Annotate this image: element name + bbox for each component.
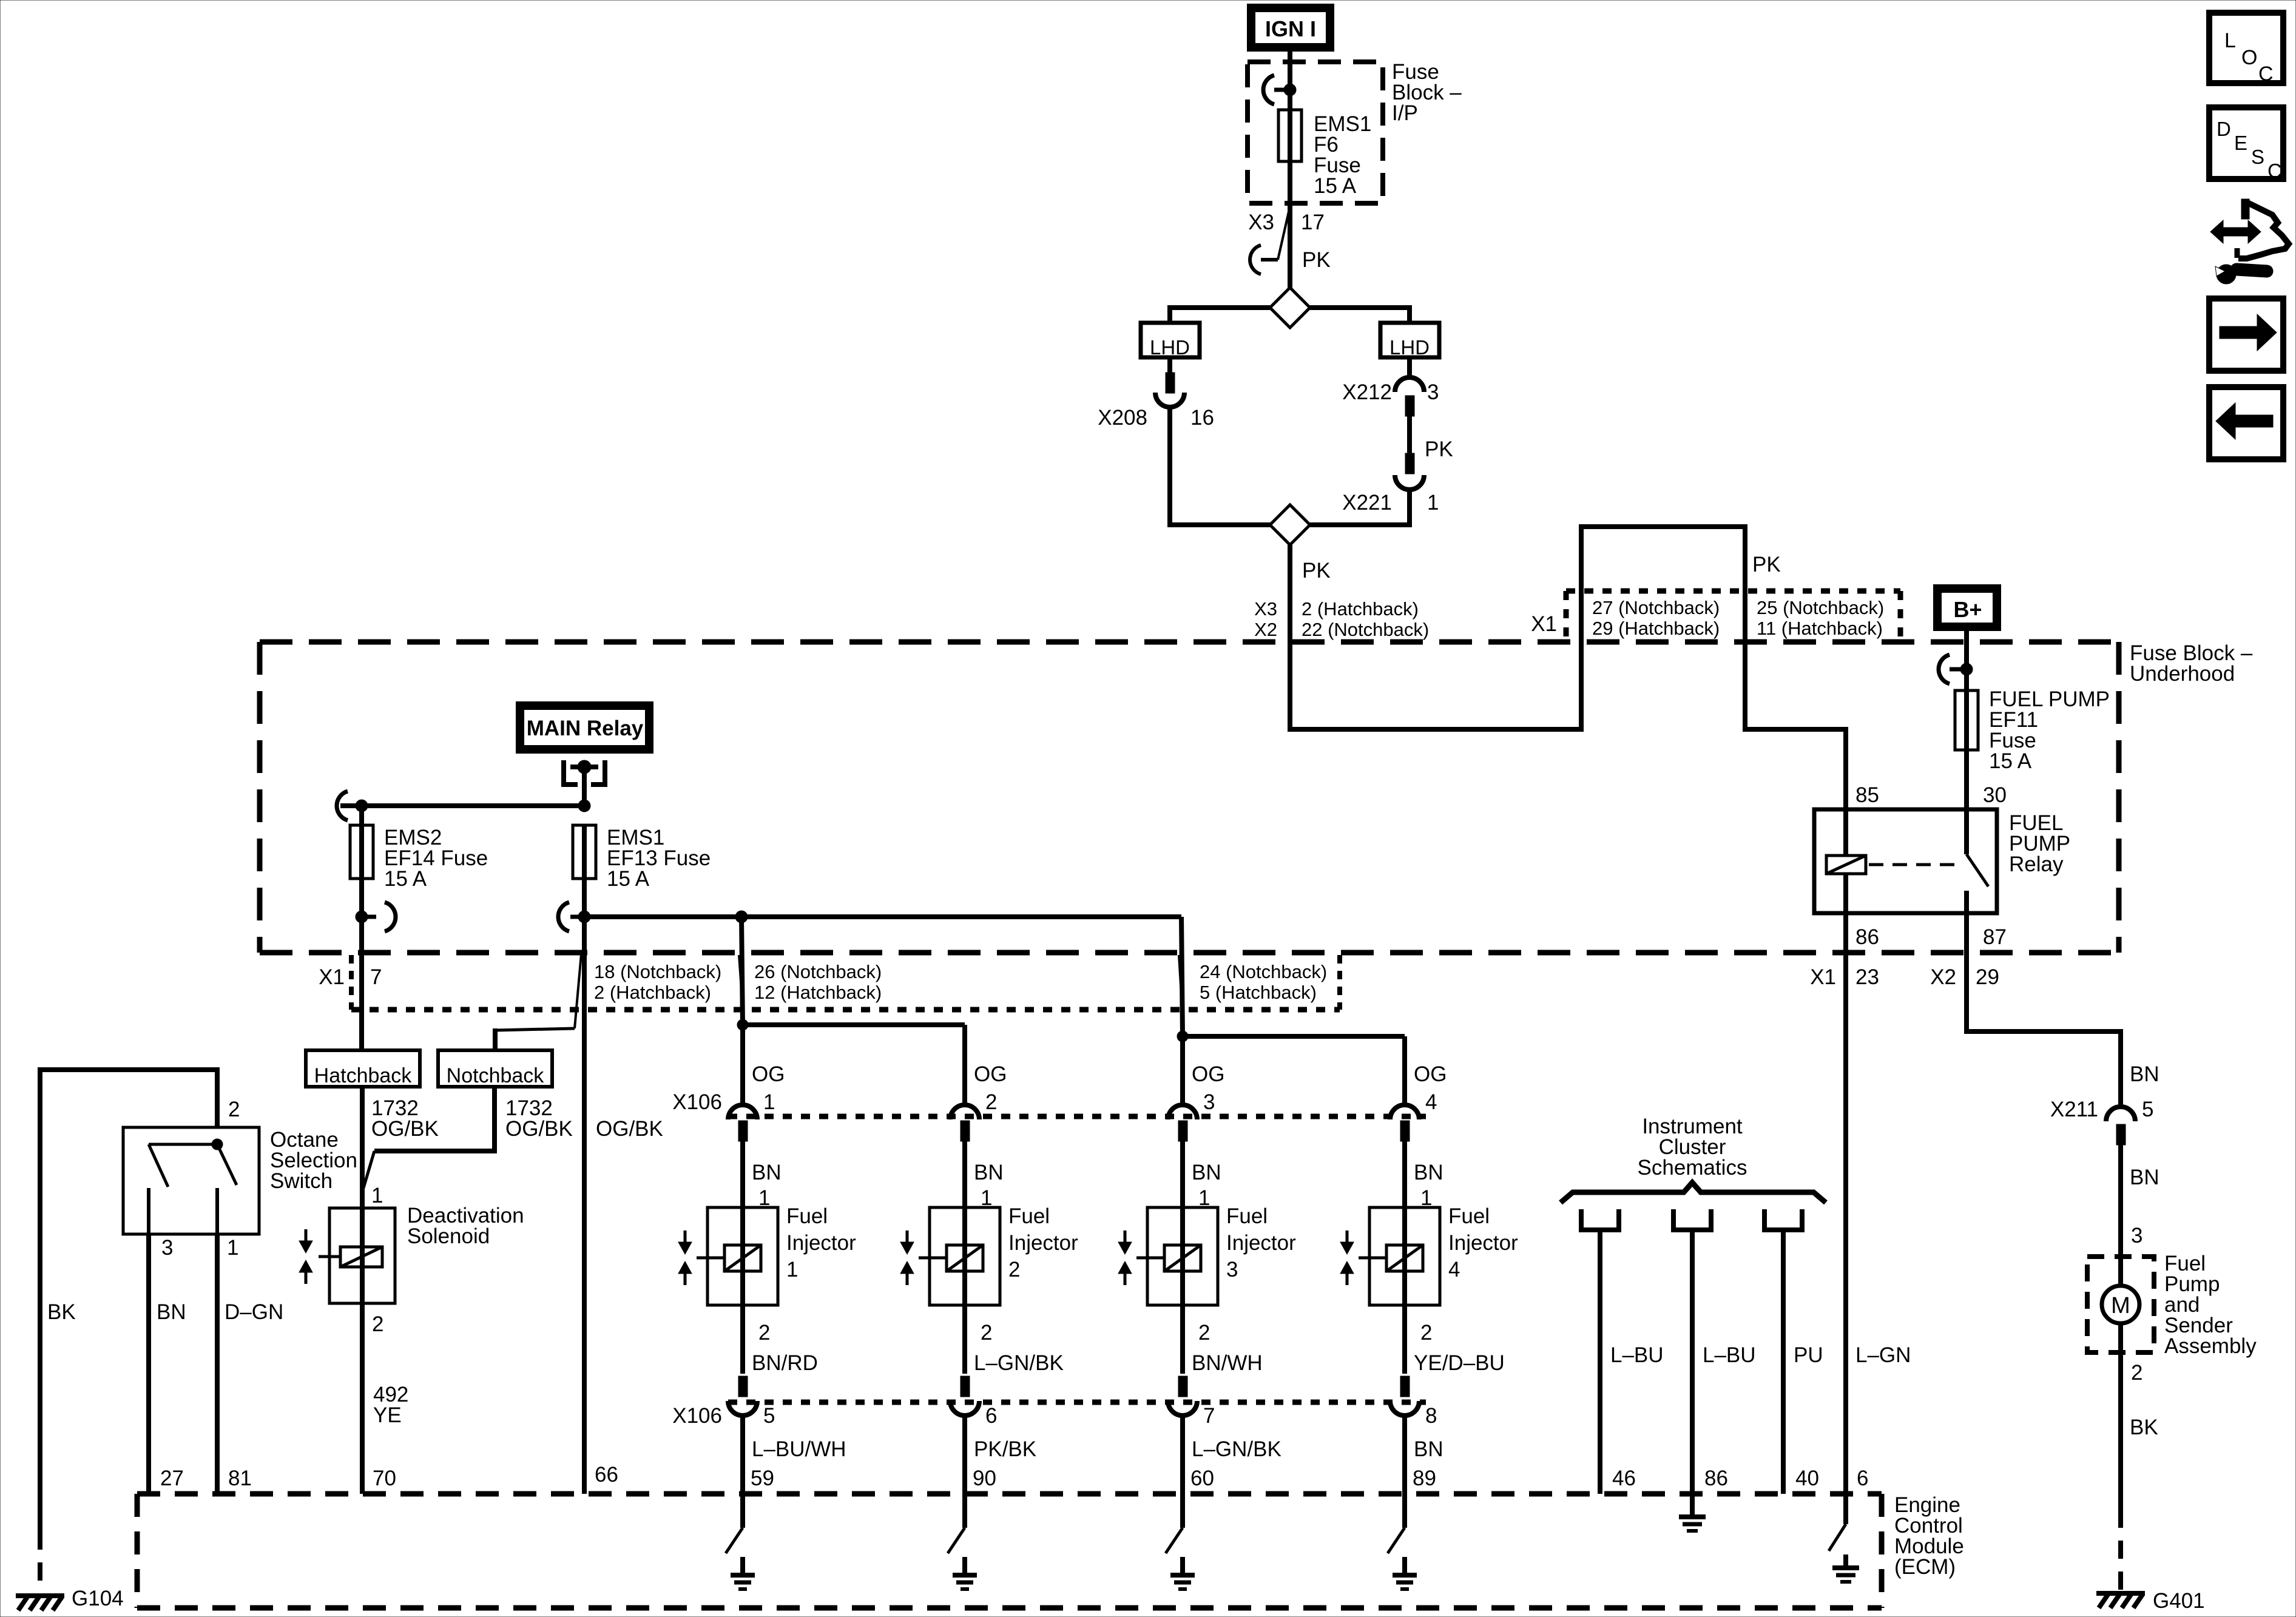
svg-text:86: 86 [1704, 1467, 1728, 1490]
svg-text:Injector: Injector [1008, 1231, 1078, 1255]
svg-text:D–GN: D–GN [225, 1300, 283, 1324]
connector X106 top dotted line [728, 1114, 1426, 1119]
wire fuel pump to G401 BK [2118, 1323, 2123, 1510]
ground wire dashed G401 [2118, 1510, 2123, 1590]
svg-text:87: 87 [1983, 925, 2007, 949]
wire instrument cluster 2 [1690, 1230, 1695, 1494]
wire injector 3 pin2 to X106 [1180, 1305, 1185, 1374]
svg-text:Schematics: Schematics [1638, 1156, 1747, 1180]
wire instrument cluster 3 [1781, 1230, 1786, 1494]
svg-text:PU: PU [1794, 1343, 1823, 1367]
svg-text:2: 2 [758, 1321, 770, 1345]
svg-text:7: 7 [370, 965, 382, 989]
fuel injector 2 valve arrows [906, 1230, 909, 1242]
svg-text:MAIN Relay: MAIN Relay [527, 717, 644, 740]
svg-text:G401: G401 [2153, 1589, 2205, 1613]
svg-text:40: 40 [1795, 1467, 1819, 1490]
fuel injector 4 box [1369, 1207, 1440, 1305]
svg-text:15 A: 15 A [1314, 174, 1357, 198]
connector X208 pin 16 [1167, 357, 1172, 373]
svg-text:18 (Notchback): 18 (Notchback) [594, 961, 721, 982]
svg-text:Injector: Injector [1226, 1231, 1296, 1255]
icon box LOC [2209, 13, 2283, 83]
svg-text:YE: YE [373, 1403, 402, 1427]
svg-text:70: 70 [373, 1467, 396, 1490]
junction clip EF14 [362, 915, 376, 919]
svg-text:OG: OG [1192, 1062, 1224, 1086]
icon box DESC [2209, 107, 2283, 179]
injector feed bus [584, 914, 1181, 919]
svg-text:PK: PK [1752, 553, 1781, 576]
junction clip EF13 [570, 915, 584, 919]
instrument cluster terminal 1 [1581, 1209, 1619, 1230]
svg-text:OG/BK: OG/BK [505, 1117, 573, 1141]
wire X221 to splice S202 [1310, 490, 1410, 525]
fuse block underhood dashed outline [260, 640, 2119, 645]
svg-text:46: 46 [1612, 1467, 1636, 1490]
svg-text:M: M [2111, 1293, 2130, 1318]
svg-text:LHD: LHD [1150, 336, 1190, 359]
svg-text:X3: X3 [1248, 211, 1274, 234]
instrument cluster terminal 2 [1673, 1209, 1711, 1230]
svg-text:X1: X1 [1531, 612, 1557, 636]
deactivation solenoid valve arrows [305, 1229, 308, 1241]
wire fuse F6 to splice S201 [1288, 161, 1292, 288]
svg-text:IGN I: IGN I [1265, 16, 1316, 41]
svg-text:BN/RD: BN/RD [752, 1351, 818, 1375]
deactivation solenoid coil [319, 1255, 342, 1258]
svg-text:X106: X106 [672, 1090, 722, 1114]
svg-text:I/P: I/P [1392, 101, 1418, 125]
svg-text:PK: PK [1302, 248, 1331, 272]
svg-text:5: 5 [763, 1404, 775, 1428]
relay control label box MAIN Relay [516, 701, 653, 754]
svg-text:4: 4 [1425, 1090, 1437, 1114]
wire relay 86 to ECM pin 6 L-GN [1843, 913, 1848, 1494]
bus clip at fuse F6 top [1274, 88, 1290, 92]
fuse FUEL PUMP EF11 15A [1955, 690, 1978, 750]
svg-text:3: 3 [2131, 1224, 2142, 1247]
connector X106 pin 7 [1178, 1376, 1187, 1397]
wire injector 1 pin2 to X106 [740, 1305, 745, 1374]
svg-text:2 (Hatchback): 2 (Hatchback) [594, 982, 711, 1003]
fuel injector 2 box [930, 1207, 1000, 1305]
wire octane pin1 to ECM 81 D-GN [215, 1234, 220, 1494]
svg-text:(ECM): (ECM) [1894, 1555, 1956, 1579]
svg-text:Injector: Injector [1448, 1231, 1518, 1255]
wire Hatchback to solenoid pin 1 [360, 1087, 365, 1208]
svg-text:2: 2 [1420, 1321, 1432, 1345]
octane selection switch box [123, 1127, 259, 1234]
connector X106 pin 8 [1400, 1376, 1410, 1397]
svg-text:L–GN/BK: L–GN/BK [974, 1351, 1064, 1375]
svg-text:Fuel: Fuel [1448, 1204, 1490, 1228]
wire solenoid pin2 to ECM 70 [360, 1303, 365, 1494]
wire PK splice S202 into fuse block [1290, 527, 1846, 809]
svg-text:2: 2 [981, 1321, 992, 1345]
engine control module dashed outline [137, 1491, 1882, 1497]
svg-text:X212: X212 [1342, 380, 1392, 404]
fuse EMS1 EF13 15A [573, 825, 596, 879]
instrument cluster brace [1561, 1183, 1826, 1203]
deactivation solenoid box [329, 1208, 395, 1303]
svg-text:Injector: Injector [786, 1231, 856, 1255]
svg-text:L–BU: L–BU [1703, 1343, 1756, 1367]
svg-text:16: 16 [1190, 406, 1214, 430]
svg-text:L–GN/BK: L–GN/BK [1192, 1437, 1281, 1461]
svg-text:2: 2 [985, 1090, 997, 1114]
wire X106 to injector 4 [1402, 1140, 1407, 1207]
svg-text:Assembly: Assembly [2164, 1334, 2257, 1358]
fuel injector 3 valve arrows [1124, 1230, 1127, 1242]
wire splice S201 to left LHD [1170, 308, 1270, 323]
svg-text:90: 90 [973, 1467, 996, 1490]
svg-text:1: 1 [1427, 491, 1439, 515]
svg-text:5 (Hatchback): 5 (Hatchback) [1200, 982, 1317, 1003]
svg-text:OG: OG [1414, 1062, 1447, 1086]
wire X106 to injector 2 [962, 1140, 967, 1207]
svg-text:1: 1 [227, 1236, 238, 1260]
wire main relay to fuse bus [582, 767, 587, 806]
variant label box Hatchback [306, 1050, 420, 1087]
svg-text:X1: X1 [319, 965, 345, 989]
svg-text:27 (Notchback): 27 (Notchback) [1592, 597, 1720, 618]
power feed label box IGN I [1247, 4, 1334, 52]
svg-text:2: 2 [228, 1098, 240, 1121]
svg-text:59: 59 [751, 1467, 774, 1490]
branch EF13 to Notchback [575, 954, 581, 1028]
fuel injector 3 coil [1136, 1257, 1166, 1260]
ECM driver switch injector 2 [962, 1494, 967, 1528]
svg-text:12 (Hatchback): 12 (Hatchback) [754, 982, 882, 1003]
svg-text:Relay: Relay [2009, 852, 2064, 876]
svg-text:OG/BK: OG/BK [596, 1117, 663, 1141]
svg-text:25 (Notchback): 25 (Notchback) [1757, 597, 1884, 618]
svg-text:1: 1 [371, 1184, 383, 1207]
connector X211 pin 5 [2106, 1107, 2135, 1121]
connector X106 pin 4 [1390, 1105, 1419, 1119]
wire X106 pin 5 to ECM [740, 1416, 745, 1494]
svg-text:85: 85 [1855, 783, 1879, 807]
ground G401 [2096, 1591, 2145, 1596]
svg-text:B+: B+ [1953, 597, 1982, 622]
splice diamond S202 [1270, 505, 1310, 545]
wire EF13 to junction [582, 879, 587, 917]
fuel pump relay switch [1964, 809, 1969, 854]
svg-text:X1: X1 [1810, 965, 1836, 989]
svg-text:23: 23 [1855, 965, 1879, 989]
svg-text:BN: BN [752, 1161, 782, 1184]
svg-text:30: 30 [1983, 783, 2007, 807]
svg-text:Fuel: Fuel [786, 1204, 828, 1228]
svg-text:X221: X221 [1342, 491, 1392, 515]
svg-text:G104: G104 [72, 1587, 124, 1610]
fuel pump and sender dashed box [2087, 1257, 2154, 1352]
fuse EMS2 EF14 15A [359, 806, 364, 825]
svg-text:BN: BN [1192, 1161, 1221, 1184]
svg-text:BN: BN [2130, 1166, 2159, 1189]
svg-text:Underhood: Underhood [2130, 662, 2235, 686]
svg-text:L–BU/WH: L–BU/WH [752, 1437, 846, 1461]
svg-text:BK: BK [2130, 1416, 2158, 1439]
variant label box LHD left [1141, 323, 1200, 357]
fuel injector 4 valve arrows [1346, 1230, 1349, 1242]
wire X106 pin 7 to ECM [1180, 1416, 1185, 1494]
svg-text:C: C [2267, 160, 2282, 182]
fuel pump motor M [2102, 1286, 2139, 1323]
svg-text:LHD: LHD [1389, 336, 1430, 359]
fuel injector 2 coil [919, 1257, 948, 1260]
wire fuse EF11 to relay pin 30 [1964, 750, 1969, 809]
connector X212 pin 3 [1407, 357, 1412, 377]
svg-text:E: E [2234, 132, 2247, 154]
svg-text:X211: X211 [2050, 1098, 2098, 1121]
connector X1 dotted boundary bottom [349, 955, 354, 1010]
svg-text:60: 60 [1190, 1467, 1214, 1490]
svg-text:PK: PK [1302, 559, 1331, 582]
svg-text:PK: PK [1425, 437, 1453, 461]
svg-text:66: 66 [595, 1463, 618, 1487]
wire X106 pin 6 to ECM [962, 1416, 967, 1494]
instrument cluster terminal 3 [1764, 1209, 1802, 1230]
svg-text:15 A: 15 A [607, 867, 650, 891]
fuel injector 1 coil [697, 1257, 726, 1260]
svg-text:24 (Notchback): 24 (Notchback) [1200, 961, 1327, 982]
connector X106 bottom dotted line [728, 1400, 1426, 1405]
injector feed branch 1 [741, 917, 743, 1025]
injector feed branch 3 [1181, 917, 1183, 1036]
fuel pump relay actuation dashed link [1869, 863, 1961, 866]
splice diamond S201 [1270, 288, 1310, 328]
svg-text:BN: BN [157, 1300, 186, 1324]
svg-text:L–GN: L–GN [1855, 1343, 1911, 1367]
svg-text:OG: OG [752, 1062, 785, 1086]
wire relay 87 to X211 [1967, 913, 2121, 1106]
ground wire dashed G104 [38, 1531, 42, 1592]
wire splice S201 to right LHD [1310, 308, 1410, 323]
connector X3 clip symbol [1278, 206, 1290, 260]
svg-text:11 (Hatchback): 11 (Hatchback) [1757, 618, 1883, 639]
svg-text:BN: BN [974, 1161, 1004, 1184]
wire injector 4 pin2 to X106 [1402, 1305, 1407, 1374]
fuse block I/P dashed outline [1248, 62, 1383, 203]
octane switch internals [149, 1143, 217, 1146]
svg-text:L: L [2224, 29, 2236, 52]
svg-text:81: 81 [228, 1467, 252, 1490]
wire EF14 output to Hatchback [359, 917, 364, 1050]
fuel pump relay box [1814, 809, 1997, 913]
connector X1 dotted boundary [1566, 589, 1900, 594]
connector X221 pin 1 [1405, 453, 1414, 474]
fuel injector 1 box [707, 1207, 778, 1305]
svg-text:2: 2 [1008, 1258, 1020, 1281]
svg-text:O: O [2241, 46, 2257, 69]
svg-text:27: 27 [160, 1467, 184, 1490]
svg-text:Fuel: Fuel [1226, 1204, 1268, 1228]
wire instrument cluster 1 [1598, 1230, 1602, 1494]
svg-text:6: 6 [985, 1404, 997, 1428]
wire octane pin2 loop to G104 [40, 1070, 217, 1531]
wire B+ to fuse EF11 [1964, 631, 1969, 690]
svg-text:8: 8 [1425, 1404, 1437, 1428]
svg-text:1: 1 [763, 1090, 775, 1114]
svg-text:BN: BN [2130, 1062, 2159, 1086]
injector feed branch 4 [1183, 1034, 1405, 1039]
fuel injector 3 box [1147, 1207, 1218, 1305]
svg-text:15 A: 15 A [384, 867, 427, 891]
svg-text:22 (Notchback): 22 (Notchback) [1302, 619, 1429, 640]
svg-text:3: 3 [161, 1236, 173, 1260]
bus clip at fuse EF11 [1950, 667, 1967, 672]
svg-text:2: 2 [372, 1312, 383, 1336]
svg-text:3: 3 [1226, 1258, 1238, 1281]
wire IGN I to fuse F6 [1288, 52, 1292, 110]
svg-text:S: S [2251, 146, 2264, 168]
svg-text:D: D [2217, 118, 2231, 140]
svg-text:Solenoid: Solenoid [407, 1224, 490, 1248]
svg-text:2 (Hatchback): 2 (Hatchback) [1302, 598, 1419, 619]
wire X212 to X221 PK [1407, 414, 1412, 453]
svg-text:X2: X2 [1254, 619, 1277, 640]
ground G104 [16, 1593, 64, 1598]
wire octane pin3 to ECM 27 BN [146, 1234, 151, 1494]
svg-text:OG/BK: OG/BK [371, 1117, 439, 1141]
svg-text:X208: X208 [1098, 406, 1147, 430]
svg-text:26 (Notchback): 26 (Notchback) [754, 961, 882, 982]
svg-text:X3: X3 [1254, 598, 1277, 619]
svg-text:X106: X106 [672, 1404, 722, 1428]
svg-text:3: 3 [1203, 1090, 1215, 1114]
svg-text:OG: OG [974, 1062, 1007, 1086]
ECM driver switch fuel pump [1843, 1494, 1848, 1524]
svg-text:BN/WH: BN/WH [1192, 1351, 1263, 1375]
wire EF14 to junction [359, 879, 364, 917]
injector feed branch 2 [743, 1022, 965, 1027]
svg-text:PK/BK: PK/BK [974, 1437, 1036, 1461]
svg-text:4: 4 [1448, 1258, 1460, 1281]
ECM driver switch injector 4 [1402, 1494, 1407, 1528]
instrument cluster ground in ECM [1690, 1494, 1695, 1517]
svg-text:29 (Hatchback): 29 (Hatchback) [1592, 618, 1720, 639]
svg-text:Hatchback: Hatchback [314, 1064, 413, 1087]
svg-text:X2: X2 [1930, 965, 1956, 989]
wire X208 to splice S202 [1170, 407, 1270, 525]
connector X106 pin 5 [738, 1376, 748, 1397]
svg-text:1: 1 [786, 1258, 798, 1281]
svg-text:Switch: Switch [270, 1169, 333, 1193]
power feed label box B+ [1933, 584, 2001, 631]
main relay receptacle symbol [564, 760, 578, 785]
icon box next arrow [2209, 299, 2283, 371]
variant label box LHD right [1380, 323, 1439, 357]
svg-text:BN: BN [1414, 1437, 1443, 1461]
svg-text:BN: BN [1414, 1161, 1443, 1184]
svg-text:86: 86 [1855, 925, 1879, 949]
svg-text:BK: BK [47, 1300, 76, 1324]
svg-text:15 A: 15 A [1989, 749, 2032, 773]
connector X106 pin 6 [961, 1376, 970, 1397]
connector X106 pin 1 [728, 1105, 757, 1119]
svg-text:2: 2 [2131, 1361, 2142, 1385]
wire injector 2 pin2 to X106 [962, 1305, 967, 1374]
svg-text:6: 6 [1857, 1467, 1868, 1490]
svg-text:7: 7 [1203, 1404, 1215, 1428]
svg-text:L–BU: L–BU [1610, 1343, 1664, 1367]
wire X106 pin 8 to ECM [1402, 1416, 1407, 1494]
fuel injector 1 valve arrows [684, 1230, 687, 1242]
wire Notchback to solenoid pin 1 [374, 1087, 495, 1151]
ECM driver switch injector 3 [1180, 1494, 1185, 1528]
wire X211 to fuel pump [2118, 1143, 2123, 1286]
wire X106 to injector 3 [1180, 1140, 1185, 1207]
svg-text:5: 5 [2142, 1098, 2153, 1121]
variant label box Notchback [438, 1050, 552, 1087]
svg-text:3: 3 [1427, 380, 1439, 404]
ECM driver switch injector 1 [740, 1494, 745, 1528]
svg-text:17: 17 [1301, 211, 1325, 234]
fuse bus horizontal EMS feed [340, 803, 584, 808]
fuse EMS1 F6 15A [1278, 110, 1302, 161]
svg-text:Notchback: Notchback [447, 1064, 545, 1087]
wire X106 to injector 1 [740, 1140, 745, 1207]
svg-text:C: C [2258, 62, 2274, 86]
icon box back arrow [2209, 387, 2283, 459]
wire EF13 output to ECM 66 OG/BK [582, 917, 587, 1494]
fuel pump relay coil [1843, 809, 1848, 856]
fuel injector 4 coil [1359, 1257, 1388, 1260]
svg-text:29: 29 [1976, 965, 1999, 989]
svg-text:2: 2 [1198, 1321, 1210, 1345]
bus clip left end [337, 791, 348, 820]
connector X106 pin 2 [950, 1105, 979, 1119]
svg-text:89: 89 [1413, 1467, 1436, 1490]
icon remove replace part [2210, 220, 2261, 243]
connector X106 pin 3 [1168, 1105, 1197, 1119]
svg-text:Fuel: Fuel [1008, 1204, 1050, 1228]
svg-text:YE/D–BU: YE/D–BU [1414, 1351, 1505, 1375]
